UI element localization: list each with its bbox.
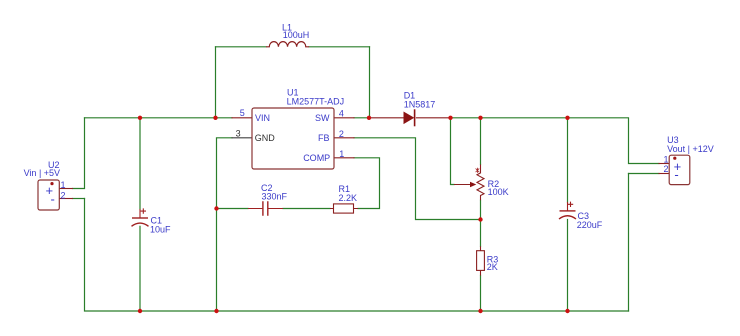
svg-text:-: - xyxy=(674,167,678,182)
svg-text:1: 1 xyxy=(664,155,669,165)
svg-text:LM2577T-ADJ: LM2577T-ADJ xyxy=(287,97,345,107)
svg-text:5: 5 xyxy=(240,108,245,118)
svg-text:3: 3 xyxy=(236,128,241,138)
svg-text:100uH: 100uH xyxy=(283,30,310,40)
svg-text:1N5817: 1N5817 xyxy=(404,100,436,110)
svg-text:Vout | +12V: Vout | +12V xyxy=(667,144,714,154)
svg-text:4: 4 xyxy=(339,109,344,119)
svg-text:-: - xyxy=(51,192,55,207)
svg-text:2K: 2K xyxy=(487,262,498,272)
svg-text:SW: SW xyxy=(315,113,330,123)
svg-text:2: 2 xyxy=(664,164,669,174)
svg-text:220uF: 220uF xyxy=(577,220,603,230)
svg-text:GND: GND xyxy=(255,133,275,143)
svg-text:VIN: VIN xyxy=(255,113,270,123)
svg-text:2.2K: 2.2K xyxy=(339,193,358,203)
svg-text:330nF: 330nF xyxy=(262,192,288,202)
svg-text:100K: 100K xyxy=(488,187,509,197)
svg-text:2: 2 xyxy=(339,129,344,139)
svg-text:FB: FB xyxy=(318,133,330,143)
svg-text:1: 1 xyxy=(339,149,344,159)
svg-text:10uF: 10uF xyxy=(150,225,171,235)
svg-text:1: 1 xyxy=(61,180,66,190)
svg-text:COMP: COMP xyxy=(303,153,330,163)
svg-text:2: 2 xyxy=(61,191,66,201)
svg-text:Vin | +5V: Vin | +5V xyxy=(24,168,60,178)
